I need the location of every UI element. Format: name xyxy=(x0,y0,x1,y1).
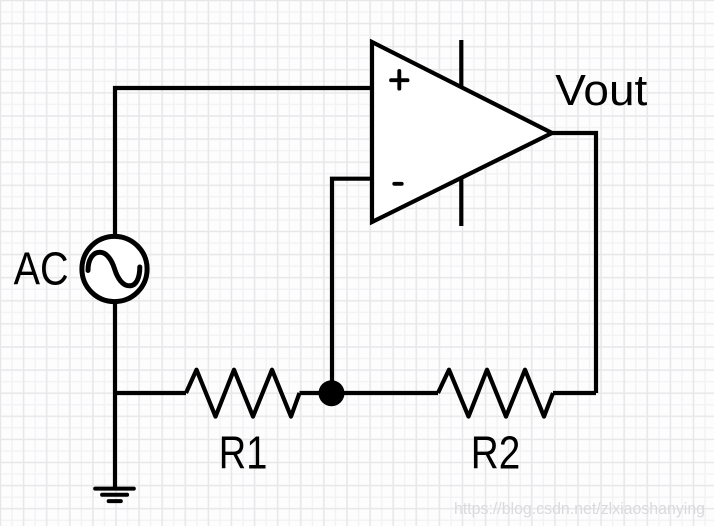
ac source V1 xyxy=(82,236,147,301)
svg-text:https://blog.csdn.net/zlxiaosh: https://blog.csdn.net/zlxiaoshanying xyxy=(454,499,705,518)
wire: AC source bottom to ground xyxy=(113,295,117,488)
wire: R2 to output corner xyxy=(553,391,596,395)
svg-text:AC: AC xyxy=(14,243,69,295)
plus marker (noninverting input) xyxy=(391,71,407,89)
svg-text:R1: R1 xyxy=(219,427,267,479)
pin V- (bottom power pin) xyxy=(459,178,463,227)
op-amp U1 xyxy=(372,40,552,226)
minus marker (inverting input) xyxy=(394,182,401,186)
wire feedback: junction up to inverting input xyxy=(332,179,372,393)
pin V+ (top power pin) xyxy=(459,40,463,88)
ground xyxy=(95,489,134,502)
svg-text:R2: R2 xyxy=(471,427,521,479)
wire: junction to R2 xyxy=(332,391,438,395)
wire input: AC source top to op-amp noninverting input xyxy=(115,88,372,240)
svg-text:Vout: Vout xyxy=(555,67,647,115)
wire output: op-amp output right and down xyxy=(552,133,596,393)
node junction (R1/R2/feedback) xyxy=(319,380,345,406)
sine wave symbol xyxy=(88,252,140,285)
wire: bottom-left branch to R1 xyxy=(115,391,186,395)
resistor R1 xyxy=(186,370,300,417)
resistor R2 xyxy=(438,370,553,417)
wire: R1 to junction xyxy=(300,391,333,395)
